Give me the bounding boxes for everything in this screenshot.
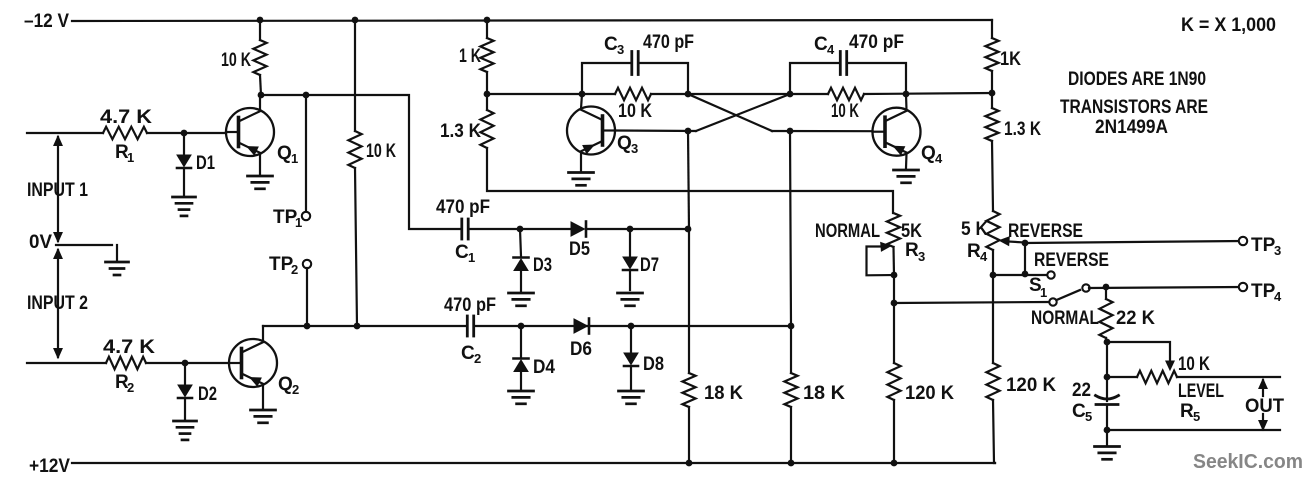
svg-text:2: 2 [292,382,299,397]
svg-text:R: R [905,240,919,261]
svg-text:TP: TP [1251,235,1276,256]
svg-text:Q: Q [277,143,292,164]
svg-text:C: C [1072,401,1086,422]
svg-text:LEVEL: LEVEL [1178,381,1224,402]
svg-text:10 K: 10 K [366,141,396,162]
svg-text:22: 22 [1072,380,1091,401]
svg-text:4.7 K: 4.7 K [103,337,155,358]
svg-text:4: 4 [1274,289,1282,304]
svg-text:10 K: 10 K [221,50,251,71]
svg-text:470 pF: 470 pF [849,32,904,53]
svg-text:2N1499A: 2N1499A [1095,117,1168,138]
svg-text:NORMAL: NORMAL [1031,308,1099,329]
svg-text:10 K: 10 K [1178,354,1210,375]
svg-text:D6: D6 [570,339,592,360]
svg-text:DIODES ARE 1N90: DIODES ARE 1N90 [1068,69,1206,90]
svg-text:3: 3 [918,249,925,264]
svg-text:2: 2 [291,262,298,277]
svg-text:Q: Q [278,374,293,395]
svg-text:18 K: 18 K [803,383,845,404]
svg-text:D4: D4 [533,357,555,378]
svg-text:C: C [461,343,475,364]
svg-text:D7: D7 [640,255,659,276]
svg-text:K = X 1,000: K = X 1,000 [1181,15,1276,36]
svg-text:1.3 K: 1.3 K [1004,119,1041,140]
svg-text:470 pF: 470 pF [444,295,496,316]
svg-text:4: 4 [980,249,988,264]
svg-text:0V: 0V [29,232,52,253]
svg-text:1.3 K: 1.3 K [440,121,481,142]
svg-text:5 K: 5 K [961,219,988,240]
svg-text:D5: D5 [569,239,590,260]
svg-text:R: R [1180,401,1194,422]
svg-text:4.7 K: 4.7 K [100,107,152,128]
svg-text:TP: TP [273,207,298,228]
svg-text:C: C [814,34,828,55]
svg-text:+12V: +12V [29,456,70,477]
svg-text:5: 5 [1193,409,1200,424]
svg-text:1K: 1K [1000,49,1021,70]
svg-text:1: 1 [127,150,134,165]
svg-text:18 K: 18 K [704,383,743,404]
svg-text:Q: Q [617,133,632,154]
svg-text:3: 3 [631,141,638,156]
svg-text:1 K: 1 K [459,46,481,67]
svg-text:C: C [455,242,469,263]
svg-text:R: R [967,241,981,262]
svg-text:TRANSISTORS ARE: TRANSISTORS ARE [1060,97,1208,118]
svg-text:D3: D3 [533,255,552,276]
svg-text:1: 1 [468,250,475,265]
svg-text:120 K: 120 K [905,383,954,404]
svg-text:D2: D2 [198,384,217,405]
svg-text:10 K: 10 K [618,101,652,122]
svg-text:REVERSE: REVERSE [1008,221,1083,242]
svg-text:1: 1 [295,215,302,230]
svg-text:2: 2 [127,380,134,395]
svg-text:470 pF: 470 pF [436,197,490,218]
svg-text:10 K: 10 K [831,101,859,122]
svg-text:1: 1 [291,151,298,166]
svg-text:OUT: OUT [1245,396,1284,417]
svg-text:D1: D1 [196,153,215,174]
svg-text:Q: Q [921,143,936,164]
svg-text:5K: 5K [901,221,922,242]
svg-text:1: 1 [1040,285,1047,300]
svg-text:INPUT 1: INPUT 1 [27,180,88,201]
svg-text:4: 4 [827,42,835,57]
svg-text:D8: D8 [643,354,664,375]
svg-text:5: 5 [1085,409,1092,424]
svg-text:3: 3 [1274,243,1281,258]
svg-text:INPUT 2: INPUT 2 [27,293,88,314]
svg-text:4: 4 [935,151,943,166]
svg-text:3: 3 [617,42,624,57]
svg-text:–12 V: –12 V [24,11,69,32]
svg-text:22 K: 22 K [1116,308,1155,329]
svg-text:REVERSE: REVERSE [1034,250,1109,271]
svg-text:2: 2 [474,351,481,366]
svg-text:C: C [604,34,618,55]
svg-text:NORMAL: NORMAL [815,221,880,242]
svg-text:TP: TP [1251,281,1276,302]
svg-text:470 pF: 470 pF [643,32,694,53]
svg-text:SeekIC.com: SeekIC.com [1193,450,1303,473]
svg-text:120 K: 120 K [1006,375,1056,396]
svg-text:TP: TP [269,254,294,275]
